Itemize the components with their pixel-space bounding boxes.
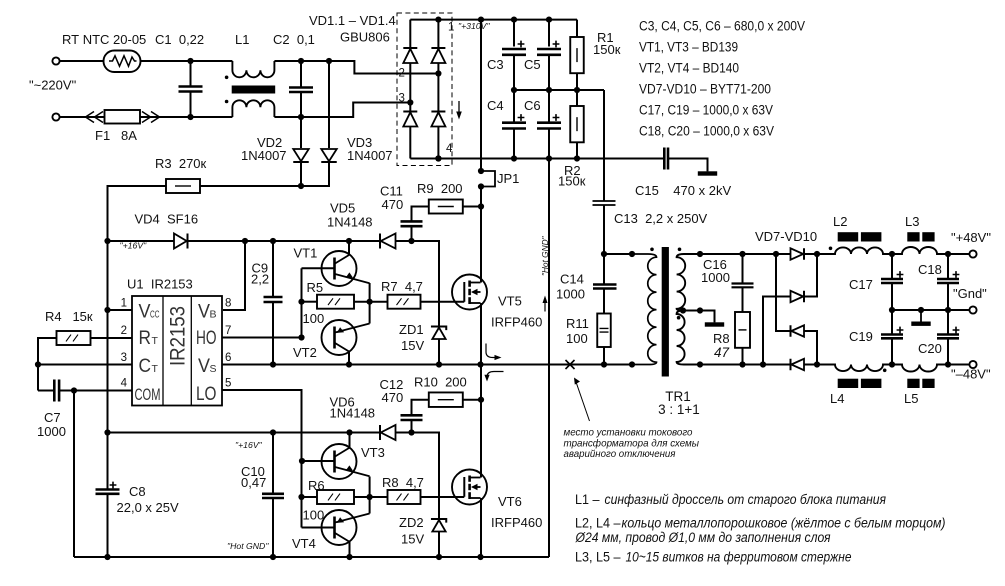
svg-text:"Hot GND": "Hot GND" [540,236,550,276]
wire C2 top stub [300,61,302,88]
wire R6 to R8 [354,496,388,498]
wire bottom AC: fuse to L1 [140,116,232,118]
transistor VT5 IRFP460 [452,275,487,310]
wire R1 bottom stub [576,73,578,90]
wire VT3 collector up [349,433,351,449]
wire C1 bottom stub [190,92,192,118]
svg-text:150к: 150к [593,42,621,57]
svg-text:1N4148: 1N4148 [330,406,376,421]
L2 phase dot [829,247,833,251]
wire VT2 collector down [348,352,350,365]
junction dots DC rails [435,17,580,162]
wire bridge left column [409,20,411,48]
wire R8 to gate VT6 [421,496,465,498]
svg-text:1: 1 [448,22,454,34]
junction dots primary [601,251,635,257]
wire Vcc column [107,186,109,433]
wire base column top [301,268,303,337]
junction dots AC lines [187,58,332,120]
wire C13 to primary top [603,205,605,254]
svg-text:L1: L1 [235,32,249,47]
wire C20 bottom stub [947,338,949,364]
wire C17 top stub [891,254,893,279]
diode VD8 [791,291,805,303]
bridge VD1.1-VD1.4 dashed outline [397,13,452,166]
terminal +48V [969,250,976,257]
resistor R2 150k [570,106,584,142]
wire VD6 anode corner [396,433,440,520]
wire bridge right column bottom [437,127,439,159]
svg-text:C: C [139,356,152,377]
wire center tap [683,311,715,323]
terminal Gnd [969,306,976,313]
svg-text:синфазный дроссель от старого: синфазный дроссель от старого блока пита… [605,492,887,508]
wire VT1 collector up [348,241,350,255]
wire C18 bottom stub [947,283,949,310]
svg-text:"+16V": "+16V" [235,440,263,450]
svg-text:C20: C20 [918,341,942,356]
svg-text:C3, C4, C5, C6 – 680,0 x 200V: C3, C4, C5, C6 – 680,0 x 200V [639,19,805,35]
wire VT4 base [302,527,335,529]
svg-text:VT3: VT3 [361,445,385,460]
svg-text:аварийного отключения: аварийного отключения [564,449,676,460]
svg-text:3: 3 [121,352,127,364]
svg-text:VD7-VD10: VD7-VD10 [755,229,817,244]
arrow current direction down [456,101,462,120]
wire C10 top stub [272,433,274,494]
capacitor C5 [537,41,561,55]
junction dots secondary [680,251,779,368]
svg-text:T: T [152,335,159,347]
capacitor C17 [881,271,903,283]
wire emitter column bottom [369,477,371,514]
svg-text:1N4007: 1N4007 [241,148,287,163]
wire JP1 to drain [480,187,482,275]
svg-text:VT4: VT4 [292,536,316,551]
wire bridge top bar [410,19,438,21]
svg-text:ZD2: ZD2 [399,515,424,530]
svg-text:LO: LO [196,384,217,405]
wire C8 top stub [107,433,109,490]
inductor L3 winding [892,247,948,254]
svg-text:IRFP460: IRFP460 [491,315,542,330]
IC pin names right [196,302,217,406]
wire -48V out [948,364,969,366]
svg-text:L3: L3 [905,214,919,229]
svg-text:2: 2 [399,68,405,80]
wire C9 top stub [272,241,274,297]
diode VD3 1N4007 [321,149,337,162]
transformer TR1 secondary winding lower [677,311,700,365]
svg-text:U1 IR2153: U1 IR2153 [127,277,193,292]
svg-text:COM: COM [135,385,161,404]
diode VD9 [791,325,805,337]
wire VT1 base [302,267,335,269]
svg-text:VD7-VD10 – BYT71-200: VD7-VD10 – BYT71-200 [639,82,771,98]
capacitor C1 [179,87,203,92]
svg-text:1N4007: 1N4007 [347,148,393,163]
wire C14 top stub [603,254,605,285]
svg-text:VD5: VD5 [330,201,355,216]
wire Vcc rail to VD4 [108,240,175,242]
wire +310V top rail [438,19,577,21]
inductor L2 winding [817,247,892,254]
wire R10 right to drain line [463,399,481,401]
svg-text:R11: R11 [566,316,589,331]
svg-text:"+48V": "+48V" [951,230,991,245]
wire R1 top stub [576,20,578,37]
wire C8 bottom stub [107,494,109,557]
svg-text:"Hot GND": "Hot GND" [227,541,269,551]
svg-text:VT2: VT2 [293,345,317,360]
svg-text:R6: R6 [308,478,325,493]
svg-text:2: 2 [121,325,127,337]
svg-text:C17: C17 [849,277,873,292]
wire Vs rail [222,364,632,366]
wire bridge right column mid [437,63,439,112]
svg-text:22,0 x 25V: 22,0 x 25V [117,500,179,515]
svg-text:1: 1 [121,298,127,310]
svg-text:RT NTC 20-05: RT NTC 20-05 [62,32,146,47]
resistor R3 270k [166,179,200,193]
wire +16V lower rail [108,432,381,434]
bridge diode VD1.2 [431,48,445,63]
svg-text:VD4 SF16: VD4 SF16 [135,212,199,227]
wire sec bottom up to VD8 [763,297,791,365]
svg-text:VD1.1 – VD1.4: VD1.1 – VD1.4 [309,13,396,28]
wire C18 top stub [947,254,949,279]
label ZD1 15V [399,322,424,353]
svg-text:100: 100 [303,311,325,326]
svg-text:C13 2,2 x 250V: C13 2,2 x 250V [614,211,708,226]
capacitor C4 [502,114,526,128]
svg-text:4: 4 [446,143,453,155]
wire C20 top stub [947,310,949,334]
wire VT4 collector down [349,542,351,558]
label C9 2,2 [251,261,269,287]
wire AC bottom into bridge pin3 [301,103,410,118]
svg-text:JP1: JP1 [497,171,519,186]
wire bridge left column mid [409,63,411,112]
svg-text:B: B [210,309,217,321]
svg-text:трансформатора для схемы: трансформатора для схемы [564,437,700,449]
svg-text:S: S [210,363,217,375]
svg-text:GBU806: GBU806 [340,30,390,45]
wire primary top rail [604,253,632,255]
svg-text:1000: 1000 [701,270,730,285]
wire mid rail down to C13 [603,90,605,201]
wire AC top into bridge pin2 [329,61,438,74]
capacitor C9 [264,297,283,302]
svg-text:C8: C8 [129,484,146,499]
junction dots driver bottom [298,458,372,500]
svg-text:6: 6 [225,352,231,364]
svg-text:L3, L5 –: L3, L5 – [575,550,621,566]
diode VD5 1N4148 [380,234,396,249]
wire pin1 Vcc [108,309,133,311]
svg-text:V: V [198,302,210,323]
capacitor C19 [881,327,903,339]
ground C15 [698,159,717,176]
wire R8 bottom stub [742,348,744,365]
svg-text:C14: C14 [560,272,584,287]
wire VT6 source [480,498,482,557]
IC pin numbers [121,298,232,390]
wire +310V feed down [480,20,482,171]
wire +48V out [948,253,969,255]
arrow to X mark [576,381,590,422]
resistor R9 200 [429,200,463,214]
svg-text:4: 4 [121,378,128,390]
svg-text:"+310V": "+310V" [458,21,490,31]
wire emitter column [369,283,371,324]
choke L1 top winding [232,61,274,77]
transistor VT6 IRFP460 [452,470,487,505]
ground center tap [705,311,724,327]
label C12 470 [380,377,404,405]
wire R3 left down to +16V node [108,186,167,241]
terminal input N (~220V bottom) [52,113,59,120]
wire C5 column [548,20,550,47]
wire C3 bottom [513,55,515,90]
svg-text:L5: L5 [904,391,918,406]
label ZD2 15V [399,515,424,547]
svg-text:100: 100 [303,508,325,523]
ground output [911,310,930,326]
wire C1 top stub [190,61,192,87]
wire Gnd mid rail [892,309,969,311]
wire C16 to R8 [742,287,744,312]
wire ZD1 to Vs rail [438,339,440,365]
junction dots IC left [35,307,111,394]
bridge diode VD1.3 [403,112,417,127]
arrow annotation upper [486,344,497,358]
label C10 0,47 [241,464,266,490]
wire secondary bottom rail [700,364,791,366]
wire C15 to ground [668,159,708,172]
note current transformer place [564,428,700,461]
jumper JP1 [481,171,495,187]
junction dots Vs rail [270,361,635,367]
wire C19 top stub [891,310,893,334]
wire VD3 anode [328,61,330,148]
resistor R7 4,7 [388,295,421,309]
wire bottom AC: L1 to C2 node [274,116,301,118]
wire C16 top stub [742,254,744,284]
svg-text:470: 470 [382,390,404,405]
svg-text:R8 4,7: R8 4,7 [382,475,424,490]
svg-text:R8: R8 [713,331,730,346]
svg-text:L1 –: L1 – [575,492,600,508]
label R8 47 [713,331,730,360]
resistor R8 47 [735,312,750,348]
svg-text:15V: 15V [401,532,424,547]
wire VT5 source [480,303,482,365]
wire top AC: terminal to RT [60,60,104,62]
transformer TR1 secondary winding upper [677,254,700,311]
wire R4 left down [38,338,57,391]
svg-text:R10 200: R10 200 [414,375,467,390]
wire pin7 HO [222,337,302,339]
wire C4 bottom [513,129,515,159]
wire C10 bottom stub [272,498,274,557]
wire R5 to R7 [354,301,388,303]
capacitor C8 [96,482,120,494]
svg-text:7: 7 [225,325,231,337]
wire R11 bottom stub [603,347,605,365]
svg-text:C2 0,1: C2 0,1 [273,32,315,47]
junction dots output [889,251,951,368]
wire secondary top rail [700,253,791,255]
svg-text:Ø24 мм, провод Ø1,0 мм до запо: Ø24 мм, провод Ø1,0 мм до заполнения сло… [575,530,831,546]
svg-text:R7 4,7: R7 4,7 [381,279,423,294]
snubber C16 [732,284,754,288]
svg-text:3: 3 [399,93,405,105]
wire bridge left column bottom [409,127,411,159]
svg-text:C5: C5 [524,57,541,72]
wire R7 to gate VT5 [421,301,465,303]
svg-text:15V: 15V [401,338,424,353]
wire VD3 cathode to R3 row [301,162,329,186]
wire Vb to pin8 [223,241,245,310]
wire C14 to R11 [603,289,605,314]
wire VD2 anode [300,117,302,148]
label R2 150к [558,163,586,189]
wire VT3 base [302,460,335,462]
wire C17 bottom stub [891,283,893,310]
note inductor descriptions [575,492,946,566]
wire VD8 cathode to +node [804,254,817,297]
capacitor C15 [664,148,668,170]
svg-text:"–48V": "–48V" [951,367,991,382]
junction dots driver top [298,299,372,341]
arrow annotation lower [487,372,504,378]
wire pin2 Rt [90,337,132,339]
label C11 470 [380,184,403,213]
svg-text:10~15 витков на ферритовом сте: 10~15 витков на ферритовом стержне [626,550,852,566]
wire bridge right column [437,20,439,48]
transistor VT4 [322,510,370,545]
wire C9 bottom to Vs rail [272,302,274,365]
wire R2 bottom stub [576,142,578,158]
wire VT6 drain [480,365,482,478]
snubber C14 [593,285,617,289]
svg-text:"Gnd": "Gnd" [953,286,987,301]
svg-text:R5: R5 [307,280,324,295]
wire R9 left to C11 [412,207,429,222]
label C8 22,0 x 25V [117,484,179,515]
inductor L5 core bars [907,379,934,388]
wire R3 to VD2 node [200,185,301,187]
choke L1 phase dots [225,76,229,104]
resistor R1 150k [570,37,584,73]
wire minus rail [438,158,664,160]
svg-text:VT1: VT1 [294,246,318,261]
capacitor C6 [537,114,561,128]
resistor R5 100 [317,295,354,309]
bridge diode VD1.1 [403,48,417,63]
junction dots hot gnd rail [104,554,483,560]
terminal -48V [969,361,976,368]
transistor VT3 [322,444,370,479]
wire R9 right to drain line [463,206,481,208]
svg-text:8: 8 [225,298,231,310]
inductor L5 winding [892,365,948,372]
op-amp U1 IR2153 body [132,296,222,406]
capacitor C10 [262,494,284,498]
resistor R4 15k [57,331,91,345]
choke L1 bottom winding [232,100,274,117]
wire C6 bottom [548,129,550,159]
wire top AC: RT to L1 [141,60,233,62]
svg-text:VT1, VT3 – BD139: VT1, VT3 – BD139 [639,40,738,56]
transistor VT1 [322,251,370,286]
capacitor C11 [401,221,423,226]
wire bottom AC: terminal to fuse [60,116,105,118]
svg-text:C19: C19 [849,329,873,344]
transformer TR1 primary winding [632,254,657,365]
svg-text:C1 0,22: C1 0,22 [155,32,204,47]
svg-text:R9 200: R9 200 [417,181,463,196]
svg-text:100: 100 [566,331,588,346]
capacitor C20 [937,327,959,339]
capacitor C13 [593,201,616,205]
wire R6 left stub [302,496,318,498]
wire ZD2 to hot gnd [438,532,440,558]
wire C5 bottom [548,55,550,90]
diode VD7 [791,248,805,260]
wire bridge bottom bar [410,158,438,160]
svg-text:T: T [152,363,159,375]
wire COM down to hot gnd [73,391,75,558]
junction dots rectifier [814,251,820,368]
zener ZD1 15V [431,327,446,340]
wire minus rail down (hot gnd column) [548,159,550,558]
wire VD7 cathode to +node [804,253,817,255]
wire R2 top stub [576,90,578,106]
svg-text:VT5: VT5 [498,294,522,309]
diode VD2 1N4007 [293,149,309,162]
L4 phase dot [883,369,887,373]
resistor R8 4,7 [388,490,421,504]
inductor L4 winding [817,365,892,372]
svg-text:IR2153: IR2153 [166,306,190,366]
wire VD10 anode to -node [804,364,817,366]
wire C6 column [548,90,550,123]
svg-text:L4: L4 [830,391,844,406]
inductor L3 core bars [907,232,934,241]
svg-text:5: 5 [225,378,231,390]
resistor R6 100 [317,490,354,504]
wire VD5 anode to corner [396,241,440,327]
transistor VT2 [322,320,370,355]
junction dots JP1 [478,168,484,403]
wire C12 bottom [411,420,413,433]
capacitor C2 [289,88,313,93]
svg-text:C3: C3 [487,57,504,72]
svg-text:C15 470 x 2kV: C15 470 x 2kV [635,183,731,198]
wire C4 column [513,90,515,123]
terminal input L (~220V top) [52,57,59,64]
svg-text:R: R [139,328,152,349]
resistor R10 200 [429,392,463,407]
svg-text:C6: C6 [524,98,541,113]
wire hot gnd rail [74,556,549,558]
svg-text:C18, C20 – 1000,0 x 63V: C18, C20 – 1000,0 x 63V [639,124,774,140]
svg-text:V: V [198,356,210,377]
diode VD6 1N4148 [380,425,396,440]
svg-text:C18: C18 [918,262,942,277]
